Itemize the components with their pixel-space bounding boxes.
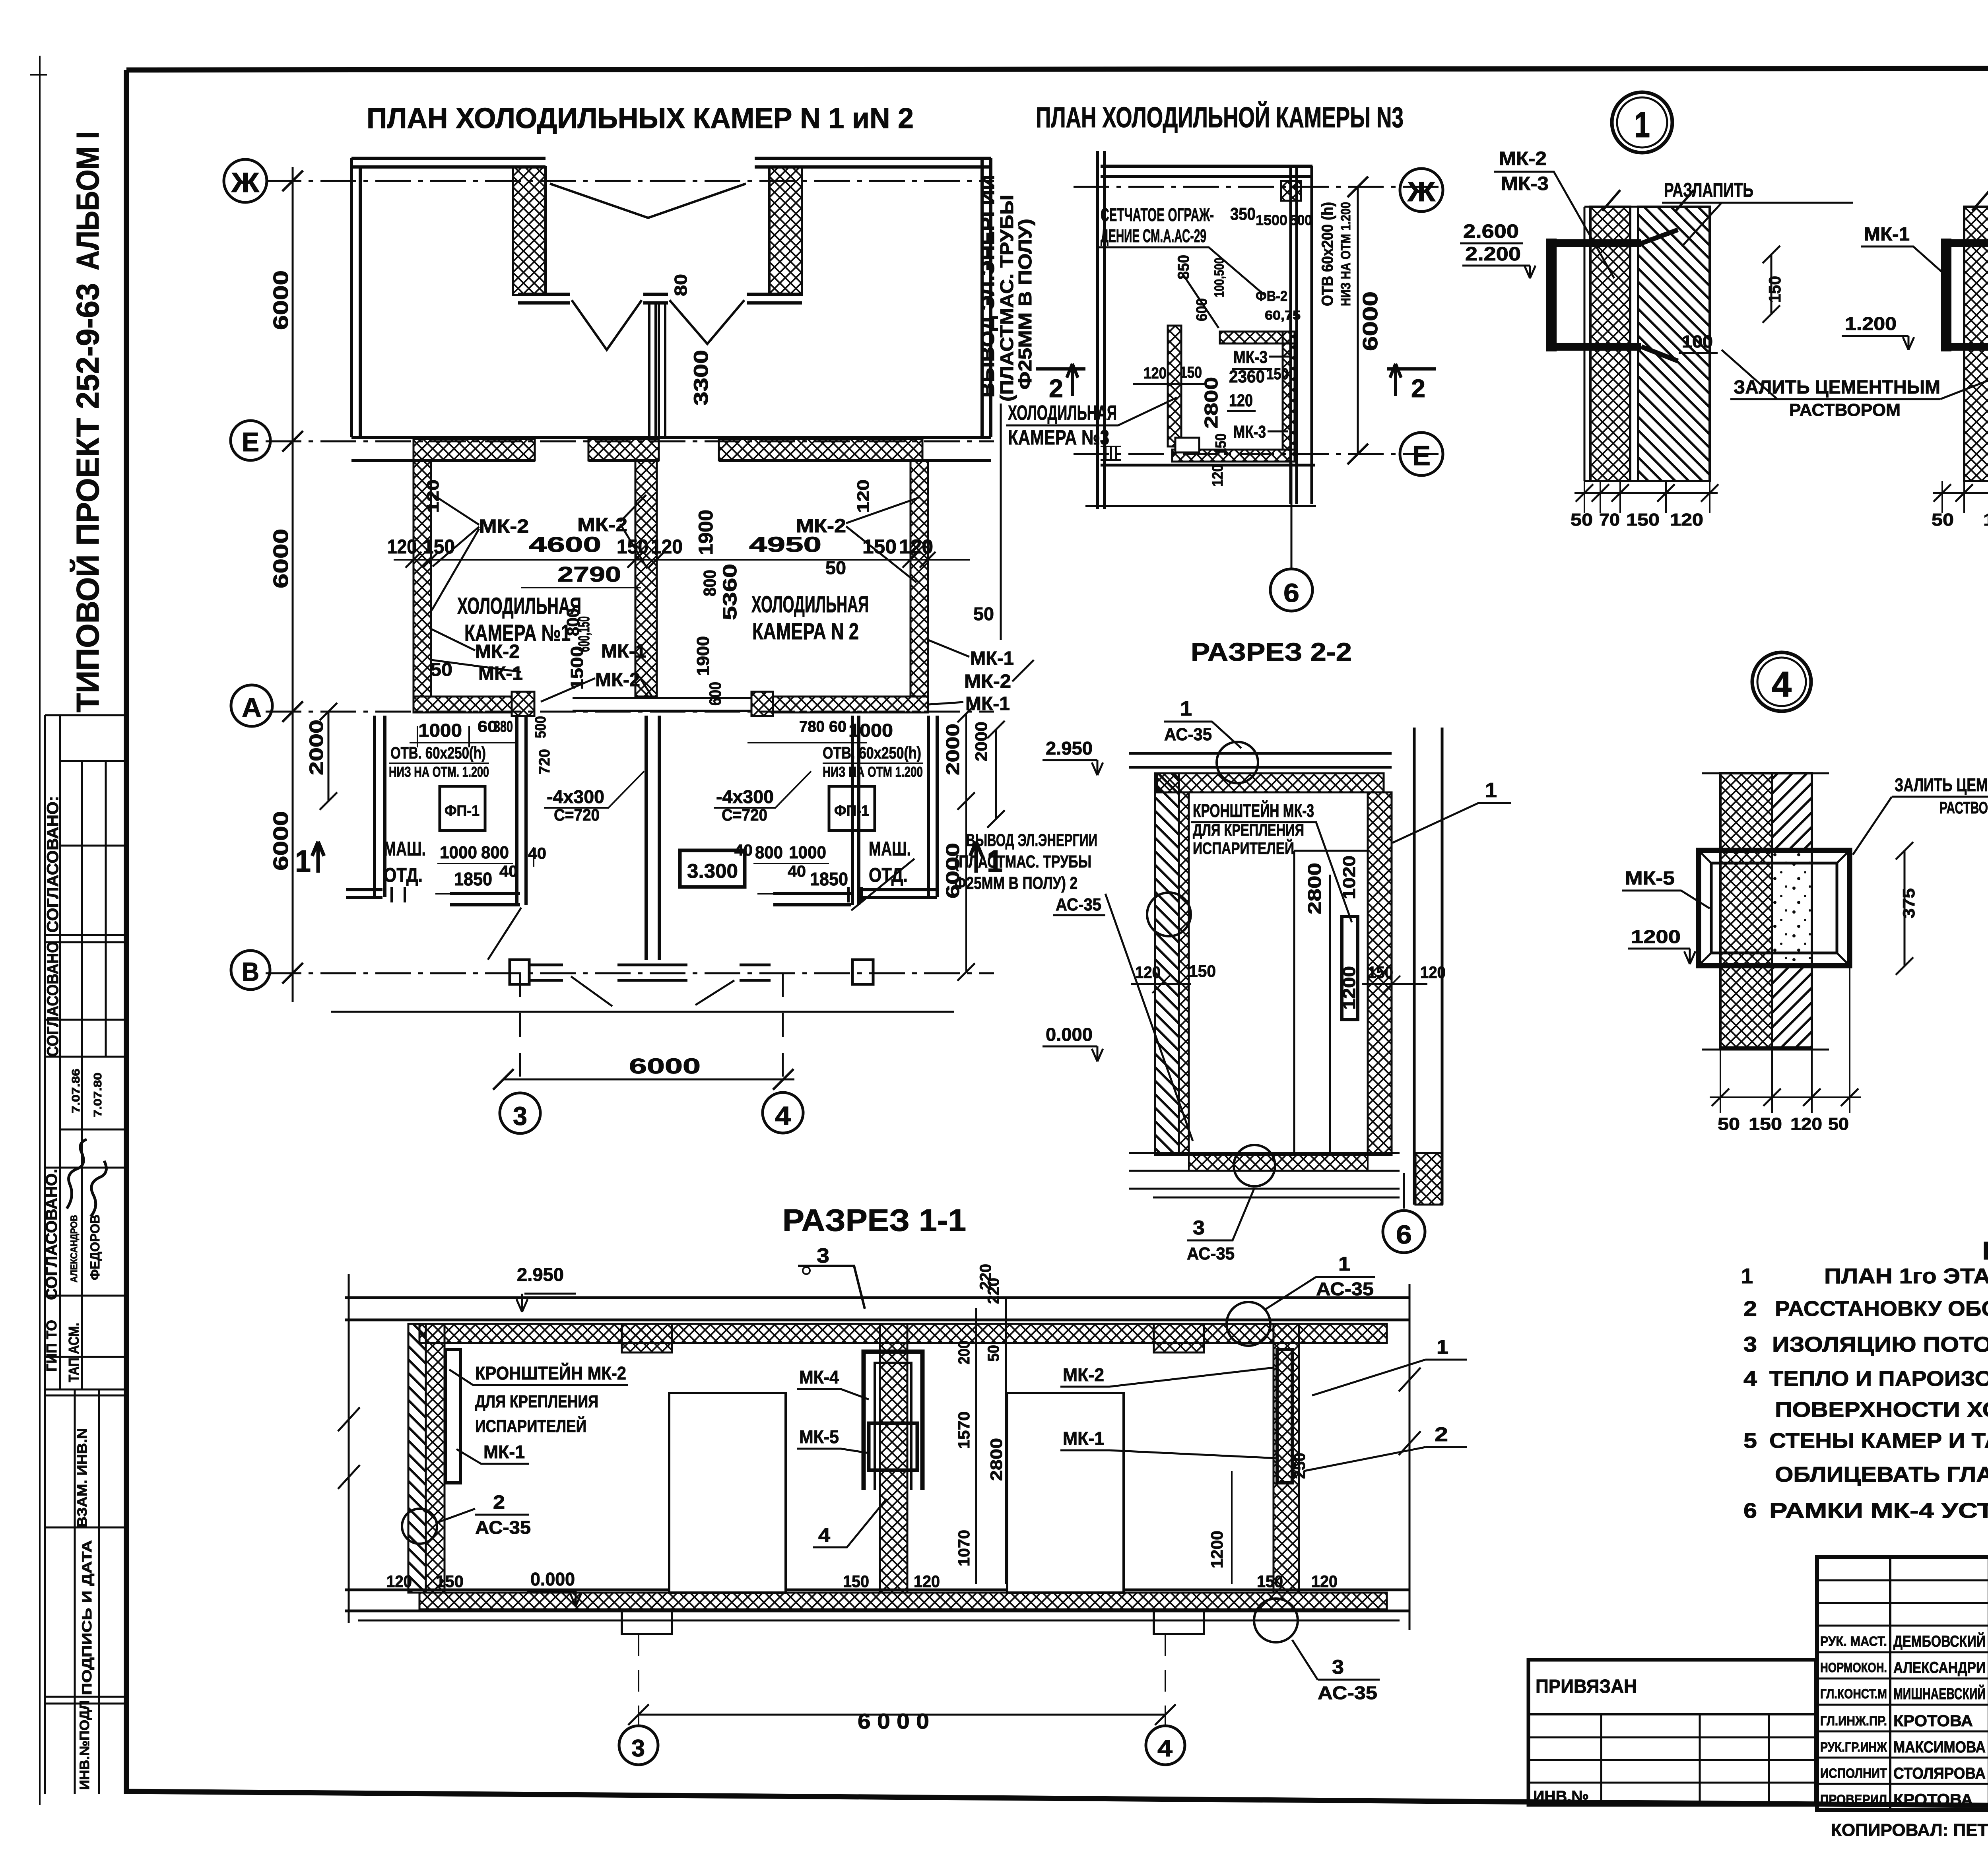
svg-text:6: 6 (1743, 1499, 1757, 1523)
svg-text:120: 120 (423, 479, 442, 513)
svg-text:6 0 0 0: 6 0 0 0 (858, 1709, 929, 1733)
svg-text:120: 120 (387, 536, 417, 558)
svg-text:120: 120 (1790, 1114, 1822, 1134)
svg-text:1: 1 (1180, 697, 1192, 720)
svg-text:2.600: 2.600 (1463, 221, 1519, 242)
circle 4 (763, 1092, 803, 1133)
axis Ж line (266, 180, 994, 182)
svg-text:МК-2: МК-2 (595, 669, 640, 691)
svg-text:800: 800 (481, 843, 509, 862)
axis circle Е (231, 421, 270, 460)
floor pilasters s11 (622, 1611, 672, 1634)
detail 2 wall (1964, 207, 1988, 481)
svg-text:ФЕДОРОВ: ФЕДОРОВ (88, 1215, 102, 1280)
svg-text:ПОДПИСЬ И ДАТА: ПОДПИСЬ И ДАТА (80, 1540, 95, 1695)
floor s11 (345, 1590, 1409, 1611)
evaporator doors s11 (669, 1393, 786, 1593)
svg-text:МК-5: МК-5 (799, 1426, 839, 1447)
svg-text:50: 50 (825, 557, 846, 578)
svg-text:80: 80 (671, 274, 691, 296)
svg-text:150: 150 (1765, 276, 1784, 303)
svg-text:120: 120 (914, 1572, 940, 1591)
svg-text:АС-35: АС-35 (1316, 1279, 1374, 1299)
MK-3 bracket s22 (1342, 916, 1358, 1020)
svg-text:МК-1: МК-1 (601, 641, 646, 662)
svg-text:1000: 1000 (848, 720, 893, 741)
svg-text:СТОЛЯРОВА: СТОЛЯРОВА (1893, 1765, 1986, 1782)
ceiling hatch band s11 (419, 1324, 1387, 1343)
svg-text:1570: 1570 (955, 1411, 973, 1449)
svg-text:120: 120 (1135, 963, 1161, 982)
svg-text:ЗАЛИТЬ ЦЕМЕНТНЫМ: ЗАЛИТЬ ЦЕМЕНТНЫМ (1895, 774, 1988, 795)
svg-text:ХОЛОДИЛЬНАЯ: ХОЛОДИЛЬНАЯ (751, 592, 869, 617)
svg-text:КАМЕРА №3: КАМЕРА №3 (1008, 426, 1109, 449)
detail circle 1 (1612, 92, 1672, 153)
svg-text:НОРМОКОН.: НОРМОКОН. (1820, 1660, 1887, 1675)
svg-text:ВЗАМ. ИНВ.N: ВЗАМ. ИНВ.N (75, 1428, 90, 1527)
axis circle В (231, 951, 270, 990)
svg-text:100: 100 (1682, 332, 1713, 351)
svg-text:800: 800 (755, 843, 783, 862)
svg-text:250: 250 (1291, 1453, 1309, 1479)
floor hatch band s11 (419, 1593, 1387, 1609)
svg-text:40: 40 (788, 863, 806, 880)
svg-text:2000: 2000 (942, 724, 963, 775)
svg-text:40: 40 (528, 845, 546, 862)
svg-text:МК-1: МК-1 (970, 648, 1014, 669)
svg-text:4: 4 (818, 1525, 830, 1546)
svg-text:150: 150 (1266, 365, 1289, 383)
svg-text:КРОНШТЕЙН МК-2: КРОНШТЕЙН МК-2 (475, 1363, 626, 1383)
svg-text:500: 500 (1290, 212, 1312, 228)
svg-text:7.07.80: 7.07.80 (91, 1073, 104, 1117)
bracket right wall s11 (1277, 1350, 1292, 1483)
svg-text:2000: 2000 (306, 720, 327, 775)
bottom dim line 6000 (503, 1079, 794, 1081)
svg-text:0.000: 0.000 (1046, 1024, 1093, 1045)
svg-text:150: 150 (1368, 963, 1393, 982)
MK-1 bracket in detail 2 (1947, 243, 1988, 347)
svg-text:150: 150 (1180, 364, 1202, 381)
svg-text:2.950: 2.950 (517, 1264, 564, 1285)
svg-text:КРОТОВА: КРОТОВА (1893, 1712, 1973, 1730)
svg-text:РУК.ГР.ИНЖ: РУК.ГР.ИНЖ (1820, 1740, 1887, 1755)
svg-text:МАКСИМОВА: МАКСИМОВА (1893, 1739, 1986, 1756)
svg-text:720: 720 (536, 749, 553, 774)
svg-text:1850: 1850 (454, 869, 492, 889)
svg-text:2: 2 (493, 1492, 505, 1513)
svg-text:МК-2: МК-2 (964, 671, 1011, 692)
svg-text:500: 500 (532, 716, 549, 738)
machine room middle wall (646, 716, 659, 960)
svg-text:70: 70 (1599, 510, 1620, 530)
left vertical dimension line (292, 167, 294, 1002)
svg-text:3: 3 (817, 1244, 829, 1267)
svg-text:800: 800 (700, 570, 720, 596)
svg-text:1200: 1200 (1340, 966, 1359, 1010)
door swing N3 (1183, 274, 1219, 328)
chamber bottom wall (414, 697, 512, 712)
axis А line (266, 711, 994, 713)
svg-text:2790: 2790 (557, 563, 621, 586)
svg-text:ВЫВОД ЭЛ.ЭНЕРГИИ: ВЫВОД ЭЛ.ЭНЕРГИИ (966, 830, 1097, 850)
svg-text:60: 60 (829, 718, 846, 735)
svg-text:120: 120 (1229, 391, 1253, 410)
svg-text:4: 4 (1772, 665, 1792, 704)
svg-text:-4х300: -4х300 (547, 786, 604, 807)
svg-text:НИЗ НА ОТМ 1.200: НИЗ НА ОТМ 1.200 (1338, 202, 1353, 306)
svg-text:6: 6 (1396, 1220, 1412, 1249)
svg-text:Ф25ММ В ПОЛУ): Ф25ММ В ПОЛУ) (1015, 219, 1035, 390)
svg-text:1000: 1000 (789, 843, 826, 862)
machine room right walls (773, 716, 859, 905)
svg-text:Ж: Ж (1407, 176, 1436, 207)
svg-text:375: 375 (1899, 888, 1918, 918)
svg-text:1200: 1200 (1631, 926, 1681, 947)
svg-text:850: 850 (1175, 255, 1192, 279)
svg-text:1900: 1900 (695, 510, 717, 555)
svg-text:СОГЛАСОВАНО:: СОГЛАСОВАНО: (44, 796, 62, 933)
section mark 2 right (1387, 364, 1436, 396)
svg-text:ПЛАН ХОЛОДИЛЬНОЙ КАМЕРЫ N3: ПЛАН ХОЛОДИЛЬНОЙ КАМЕРЫ N3 (1036, 101, 1404, 134)
svg-text:МК-3: МК-3 (1233, 347, 1268, 367)
hatched bands s22 (1157, 773, 1384, 792)
svg-text:КРОТОВА: КРОТОВА (1893, 1791, 1973, 1808)
svg-text:Ф25ММ В ПОЛУ) 2: Ф25ММ В ПОЛУ) 2 (954, 873, 1077, 893)
svg-text:1: 1 (1338, 1253, 1350, 1275)
svg-text:ОТД.: ОТД. (384, 864, 423, 886)
axis Ж line N3 (1074, 186, 1443, 188)
chamber N3 hatched walls (1220, 332, 1295, 343)
svg-text:ДЛЯ КРЕПЛЕНИЯ: ДЛЯ КРЕПЛЕНИЯ (475, 1392, 598, 1411)
svg-text:50: 50 (985, 1345, 1002, 1362)
svg-text:(ПЛАСТМАС. ТРУБЫ: (ПЛАСТМАС. ТРУБЫ (996, 195, 1017, 402)
svg-text:6000: 6000 (270, 270, 293, 330)
svg-text:120: 120 (651, 536, 683, 558)
svg-text:ИСПОЛНИТ: ИСПОЛНИТ (1820, 1766, 1887, 1781)
svg-text:ХОЛОДИЛЬНАЯ: ХОЛОДИЛЬНАЯ (457, 593, 581, 619)
svg-text:ОТВ 60х200 (h): ОТВ 60х200 (h) (1319, 202, 1336, 306)
svg-text:0.000: 0.000 (530, 1569, 575, 1589)
svg-text:1000: 1000 (418, 720, 462, 741)
svg-text:600: 600 (1194, 298, 1210, 321)
bottom slab s22 (1129, 1153, 1400, 1197)
svg-text:6000: 6000 (1359, 291, 1382, 351)
svg-text:ОБЛИЦЕВАТЬ ГЛАЗУРОВАННОЙ ПЛИТК: ОБЛИЦЕВАТЬ ГЛАЗУРОВАННОЙ ПЛИТКОЙ . (1775, 1462, 1988, 1486)
axis В line (266, 972, 994, 974)
bottom circle and 3/AC-35 (1234, 1145, 1275, 1186)
svg-text:АС-35: АС-35 (1164, 725, 1212, 744)
svg-text:РАМКИ МК-4 УСТАНАВЛИВАТЬ ПО ХО: РАМКИ МК-4 УСТАНАВЛИВАТЬ ПО ХОДУ КЛАДКИ … (1769, 1499, 1988, 1523)
right break line s11 (1409, 1284, 1411, 1630)
svg-text:ИНВ.№ПОДЛ: ИНВ.№ПОДЛ (77, 1700, 92, 1790)
svg-text:4: 4 (1743, 1367, 1757, 1391)
svg-text:-4х300: -4х300 (716, 786, 774, 807)
svg-text:150: 150 (862, 536, 897, 558)
svg-text:ДЕНИЕ СМ.А.АС-29: ДЕНИЕ СМ.А.АС-29 (1101, 225, 1206, 246)
signatures squiggles (67, 1139, 87, 1209)
svg-text:КРОНШТЕЙН МК-3: КРОНШТЕЙН МК-3 (1193, 800, 1314, 821)
section mark 1 right (970, 842, 982, 873)
svg-text:50: 50 (1571, 510, 1593, 530)
circle 4 s11 (1146, 1726, 1185, 1765)
svg-text:МК-3: МК-3 (1233, 422, 1266, 442)
svg-text:50: 50 (1718, 1114, 1740, 1134)
svg-text:ФП-1: ФП-1 (834, 803, 869, 819)
svg-text:АЛЕКСАНДРИ: АЛЕКСАНДРИ (1893, 1659, 1986, 1676)
svg-text:АЛЬБОМ I: АЛЬБОМ I (70, 131, 105, 270)
right wall s11 (1274, 1324, 1299, 1593)
svg-text:ПЛАН 1го ЭТАЖА СМ. ЛИСТ АС-10: ПЛАН 1го ЭТАЖА СМ. ЛИСТ АС-10 . (1824, 1264, 1988, 1288)
svg-text:РАЗРЕЗ 2-2: РАЗРЕЗ 2-2 (1191, 638, 1352, 666)
svg-text:ДЕМБОВСКИЙ: ДЕМБОВСКИЙ (1893, 1632, 1986, 1650)
middle wall s11 (880, 1324, 907, 1593)
svg-text:РАЗРЕЗ 1-1: РАЗРЕЗ 1-1 (782, 1203, 966, 1238)
svg-text:РАССТАНОВКУ ОБОРУДОВАНИЯ СМ. Т: РАССТАНОВКУ ОБОРУДОВАНИЯ СМ. ТЕХНОЛОГИЧЕ… (1775, 1297, 1988, 1321)
svg-text:(ПЛАСТМАС. ТРУБЫ: (ПЛАСТМАС. ТРУБЫ (954, 852, 1091, 871)
axis circle Е N3 (1400, 433, 1443, 475)
building walls N3 (1097, 151, 1105, 509)
svg-text:АС-35: АС-35 (1056, 895, 1101, 914)
svg-text:СЕТЧАТОЕ ОГРАЖ-: СЕТЧАТОЕ ОГРАЖ- (1101, 204, 1214, 225)
signature table (1817, 1557, 1988, 1810)
svg-text:ФВ-2: ФВ-2 (1256, 288, 1287, 304)
svg-text:1: 1 (1634, 105, 1650, 145)
svg-text:ХОЛОДИЛЬНАЯ: ХОЛОДИЛЬНАЯ (1008, 402, 1117, 425)
svg-text:МК-3: МК-3 (1501, 173, 1549, 194)
svg-text:1: 1 (1741, 1264, 1753, 1288)
svg-text:ОТВ. 60х250(h): ОТВ. 60х250(h) (823, 743, 921, 762)
svg-text:4: 4 (775, 1101, 791, 1130)
left margin thin line (30, 56, 47, 1805)
axis circle Ж N3 (1400, 169, 1443, 212)
svg-text:1020: 1020 (1340, 856, 1359, 899)
right vertical dim line N3 (1357, 187, 1359, 454)
svg-text:ТАП АСМ.: ТАП АСМ. (66, 1323, 82, 1382)
svg-text:50: 50 (1932, 510, 1954, 530)
svg-text:2800: 2800 (987, 1438, 1006, 1481)
svg-text:1500: 1500 (1256, 212, 1287, 228)
svg-text:ПРИМЕЧАНИЯ: ПРИМЕЧАНИЯ (1982, 1236, 1988, 1265)
svg-text:ПРОВЕРИЛ: ПРОВЕРИЛ (1820, 1792, 1887, 1807)
svg-text:ВЫВОД ЭЛ.ЭНЕРГИИ: ВЫВОД ЭЛ.ЭНЕРГИИ (977, 175, 998, 398)
svg-text:1070: 1070 (955, 1530, 973, 1566)
svg-text:3.300: 3.300 (687, 860, 738, 882)
machine room left walls (346, 716, 385, 897)
svg-text:2.200: 2.200 (1465, 244, 1521, 265)
svg-text:МАШ.: МАШ. (869, 838, 911, 860)
svg-text:ГИП ТО: ГИП ТО (43, 1320, 60, 1372)
axis circle А (231, 685, 272, 726)
label leader fans (429, 495, 1034, 704)
svg-text:150: 150 (1749, 1114, 1782, 1134)
svg-text:ПРИВЯЗАН: ПРИВЯЗАН (1536, 1676, 1637, 1697)
svg-text:1: 1 (1437, 1336, 1448, 1358)
leader to circle 6 (1291, 463, 1293, 569)
svg-text:АЛЕКСАНДРОВ: АЛЕКСАНДРОВ (69, 1215, 80, 1283)
svg-text:120: 120 (899, 536, 933, 558)
top slab s11 (345, 1298, 1409, 1320)
svg-text:МК-1: МК-1 (1063, 1428, 1104, 1449)
door swing lines corridor (572, 300, 744, 350)
window break V (550, 184, 746, 218)
svg-text:2.950: 2.950 (1046, 738, 1093, 759)
svg-text:120: 120 (1420, 963, 1446, 982)
svg-text:ДЛЯ КРЕПЛЕНИЯ: ДЛЯ КРЕПЛЕНИЯ (1193, 821, 1304, 839)
svg-text:МК-1: МК-1 (1864, 224, 1910, 245)
detail circle 4 (1752, 652, 1811, 711)
svg-text:ГЛ.ИНЖ.ПР.: ГЛ.ИНЖ.ПР. (1820, 1713, 1887, 1729)
svg-text:В: В (242, 957, 259, 986)
svg-text:АС-35: АС-35 (1187, 1244, 1235, 1263)
svg-text:РУК. МАСТ.: РУК. МАСТ. (1820, 1634, 1887, 1649)
svg-text:Ж: Ж (231, 167, 260, 198)
right outer wall (982, 158, 991, 437)
svg-text:СТЕНЫ КАМЕР И ТАМБУРОВ ПОСЛЕ У: СТЕНЫ КАМЕР И ТАМБУРОВ ПОСЛЕ УСТРОЙСТВА … (1769, 1428, 1988, 1453)
svg-text:1000: 1000 (440, 843, 477, 862)
svg-text:120: 120 (1311, 1572, 1338, 1591)
bottom dim chain d4 (1710, 966, 1861, 1113)
svg-text:600: 600 (706, 682, 724, 706)
svg-text:АС-35: АС-35 (1318, 1682, 1377, 1703)
svg-text:200: 200 (955, 1341, 973, 1364)
leaders below A (488, 859, 914, 1006)
column horizontals (45, 714, 126, 716)
svg-text:780: 780 (799, 718, 825, 735)
svg-text:1.200: 1.200 (1845, 313, 1897, 334)
svg-text:ПЛАН ХОЛОДИЛЬНЫХ КАМЕР N 1 иN: ПЛАН ХОЛОДИЛЬНЫХ КАМЕР N 1 иN 2 (367, 103, 914, 134)
top outer wall (351, 158, 991, 167)
E wall faces (351, 436, 991, 439)
circle 6 N3 (1270, 569, 1312, 611)
svg-text:АС-35: АС-35 (475, 1517, 531, 1538)
svg-text:МК-1: МК-1 (483, 1442, 525, 1462)
svg-text:150: 150 (617, 536, 648, 558)
svg-text:ФП-1: ФП-1 (445, 803, 480, 819)
MK-5 frame middle s11 (869, 1423, 917, 1470)
svg-text:3: 3 (513, 1101, 527, 1131)
corridor mid wall (518, 294, 802, 303)
privyazan box (1528, 1660, 1816, 1805)
MK-5 frame detail 4 (1699, 850, 1850, 966)
chamber walls vertical (414, 460, 431, 697)
svg-text:РАСТВОРОМ: РАСТВОРОМ (1789, 400, 1901, 420)
svg-text:НИЗ НА ОТМ 1.200: НИЗ НА ОТМ 1.200 (823, 764, 923, 780)
svg-text:5: 5 (1743, 1429, 1757, 1453)
svg-text:2000: 2000 (972, 722, 990, 761)
svg-text:4: 4 (1157, 1735, 1173, 1762)
axis Е line (266, 440, 994, 442)
right side vertical dims plan N1N2 (965, 714, 967, 972)
svg-text:120: 120 (386, 1572, 412, 1591)
MK-2 bracket in detail 1 (1553, 243, 1641, 347)
right column s22 (1414, 728, 1442, 1205)
bottom dim chain d1 (1574, 481, 1718, 513)
svg-text:ИЗОЛЯЦИЮ ПОТОЛКА, СТЕН И ПОЛА: ИЗОЛЯЦИЮ ПОТОЛКА, СТЕН И ПОЛА СМ. ЛИСТ А… (1772, 1333, 1988, 1356)
svg-text:МК-2: МК-2 (1063, 1364, 1104, 1385)
svg-text:100,500: 100,500 (1212, 258, 1227, 297)
svg-text:СОГЛАСОВАНО.: СОГЛАСОВАНО. (43, 1169, 60, 1300)
detail 4 wall (1702, 773, 1829, 1050)
svg-text:40: 40 (499, 863, 518, 880)
svg-text:150: 150 (843, 1572, 869, 1591)
svg-text:КАМЕРА N 2: КАМЕРА N 2 (752, 619, 859, 644)
E wall hatch (414, 439, 535, 460)
bracket left wall s11 (445, 1350, 460, 1483)
FP-1 boxes (440, 786, 485, 830)
svg-text:МК-2: МК-2 (479, 516, 529, 537)
bottom edge line N3 (1101, 464, 1315, 467)
svg-text:40: 40 (734, 842, 753, 859)
svg-text:2: 2 (1435, 1423, 1448, 1446)
svg-text:350: 350 (1230, 204, 1256, 224)
svg-text:ОТД.: ОТД. (869, 864, 908, 886)
svg-text:150: 150 (423, 536, 455, 558)
left break line s11 (348, 1274, 350, 1623)
interior lines s22 (1189, 792, 1368, 1153)
circle 6 s22 (1403, 1173, 1405, 1209)
svg-text:6: 6 (1283, 578, 1299, 607)
svg-text:КОПИРОВАЛ: ПЕТРОВА: КОПИРОВАЛ: ПЕТРОВА (1831, 1820, 1988, 1840)
svg-text:150: 150 (1983, 510, 1988, 530)
MK-4 frame middle s11 (864, 1352, 922, 1490)
svg-text:60,75: 60,75 (1265, 308, 1301, 322)
svg-text:1: 1 (295, 844, 311, 879)
piers in upper hall (513, 167, 546, 295)
svg-text:120: 120 (1143, 365, 1167, 382)
bottom dim chain d2 (1933, 481, 1988, 513)
B axis wall stubs (529, 965, 771, 980)
svg-text:Е: Е (242, 427, 259, 457)
svg-text:2: 2 (1743, 1297, 1757, 1321)
svg-text:МК-4: МК-4 (799, 1367, 839, 1387)
svg-text:6000: 6000 (629, 1054, 701, 1078)
svg-text:150: 150 (436, 1572, 464, 1591)
svg-text:МК-2: МК-2 (796, 516, 846, 537)
axis circle Ж (224, 159, 267, 202)
svg-text:150: 150 (1189, 962, 1216, 980)
svg-text:ОТВ. 60х250(h): ОТВ. 60х250(h) (390, 743, 486, 762)
circle 3 (500, 1093, 540, 1133)
svg-text:150: 150 (1213, 433, 1229, 456)
svg-text:2: 2 (1049, 374, 1063, 403)
svg-text:600,150: 600,150 (575, 616, 593, 652)
small dim lines machine rooms (410, 726, 867, 894)
svg-text:2360: 2360 (1229, 367, 1265, 386)
svg-text:3: 3 (631, 1735, 645, 1762)
svg-text:6000: 6000 (270, 529, 293, 588)
svg-text:ТЕПЛО И ПАРОИЗОЛЯЦИЯ ДОЛЖНЫ БЫ: ТЕПЛО И ПАРОИЗОЛЯЦИЯ ДОЛЖНЫ БЫТЬ НЕПРЕРЫ… (1769, 1366, 1988, 1391)
middle double wall above E (649, 303, 665, 437)
svg-text:ТИПОВОЙ ПРОЕКТ 252-9-63: ТИПОВОЙ ПРОЕКТ 252-9-63 (70, 283, 105, 712)
svg-text:А: А (242, 693, 262, 723)
inner dim line row (394, 559, 970, 561)
svg-text:3: 3 (1743, 1333, 1757, 1356)
detail 1 wall (1590, 207, 1630, 481)
svg-text:50: 50 (973, 603, 994, 624)
svg-text:МК-2: МК-2 (1499, 148, 1547, 169)
svg-text:РАСТВОРОМ: РАСТВОРОМ (1939, 798, 1988, 817)
svg-text:3: 3 (1332, 1656, 1344, 1678)
svg-text:3: 3 (1193, 1217, 1205, 1239)
svg-text:380: 380 (494, 718, 513, 735)
svg-text:ИНВ.№: ИНВ.№ (1533, 1788, 1589, 1805)
svg-text:150: 150 (1626, 510, 1660, 530)
svg-text:МК-5: МК-5 (1625, 868, 1675, 889)
svg-text:СОГЛАСОВАНО: СОГЛАСОВАНО (44, 941, 62, 1057)
svg-text:120: 120 (854, 479, 872, 513)
svg-text:РАЗЛАПИТЬ: РАЗЛАПИТЬ (1664, 179, 1753, 201)
